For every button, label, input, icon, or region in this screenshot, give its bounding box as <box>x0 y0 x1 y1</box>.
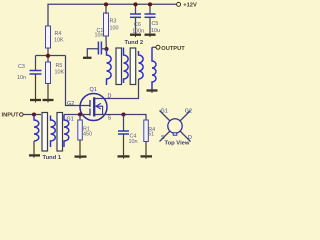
ground C5 <box>145 35 156 37</box>
gate bar G1 <box>89 109 91 116</box>
wire G1 line <box>64 114 90 116</box>
svg-text:R4: R4 <box>55 31 62 37</box>
transistor top view diagram <box>160 108 193 146</box>
ground Tund1 primary <box>29 155 40 157</box>
ground R1 <box>75 157 87 159</box>
svg-text:Tund 2: Tund 2 <box>125 40 144 46</box>
coil primary <box>34 115 39 142</box>
core bar <box>130 48 136 85</box>
gate bar G2 <box>89 100 91 107</box>
resistor R5 <box>46 62 65 84</box>
svg-text:OUTPUT: OUTPUT <box>161 46 185 52</box>
svg-text:G1: G1 <box>161 108 168 114</box>
svg-text:10n: 10n <box>17 75 26 81</box>
wire C1 left lead <box>87 49 98 57</box>
svg-text:INPUT: INPUT <box>2 113 20 119</box>
transistor Q1 dual-gate MOSFET <box>80 87 107 121</box>
wire bias node horizontal <box>36 55 66 57</box>
svg-text:G2: G2 <box>67 101 74 107</box>
capacitor C5 <box>145 4 161 34</box>
capacitor C6 <box>130 4 144 34</box>
wire C3 top lead <box>35 56 37 71</box>
wire drain to Tund2 <box>94 79 139 99</box>
node C5 rail <box>148 2 152 6</box>
coil secondary <box>139 51 144 79</box>
coil primary <box>107 49 112 85</box>
svg-text:Top View: Top View <box>165 140 190 146</box>
resistor R3 <box>104 13 119 36</box>
svg-text:S: S <box>108 115 112 121</box>
substrate arrow <box>95 106 102 114</box>
resistor R2 <box>144 120 155 155</box>
svg-text:10n: 10n <box>129 139 138 145</box>
wire output link to terminal <box>152 46 156 48</box>
core bar <box>116 48 122 85</box>
svg-text:R5: R5 <box>56 63 63 69</box>
svg-text:10u: 10u <box>151 28 160 34</box>
svg-text:10K: 10K <box>54 38 64 44</box>
ground C3 <box>30 100 41 103</box>
svg-text:Q1: Q1 <box>90 87 97 93</box>
node G1 R1 junction <box>78 112 82 116</box>
capacitor C4 <box>118 115 138 156</box>
svg-text:Tund 1: Tund 1 <box>43 155 62 161</box>
svg-text:C5: C5 <box>152 21 159 27</box>
wire source <box>94 115 146 121</box>
wire C3 bottom lead <box>35 75 37 100</box>
wire C1 right lead <box>101 48 106 50</box>
svg-text:G2: G2 <box>185 108 192 114</box>
ground C1 <box>83 57 92 59</box>
wire input <box>23 114 41 116</box>
ground output coil <box>147 91 158 94</box>
resistor R4 <box>46 26 64 48</box>
resistor R1 <box>78 115 92 156</box>
capacitor C3 <box>17 64 42 81</box>
core bar <box>42 113 48 152</box>
core bar <box>57 113 63 152</box>
svg-text:10K: 10K <box>55 70 65 76</box>
svg-text:100: 100 <box>110 25 119 31</box>
capacitor C1 <box>95 28 104 55</box>
svg-text:R3: R3 <box>110 19 117 25</box>
node R3 bottom junction <box>104 47 108 51</box>
svg-text:100n: 100n <box>132 28 144 34</box>
svg-text:10n: 10n <box>95 33 104 39</box>
node input junction <box>32 112 36 116</box>
ground R5 <box>43 100 54 103</box>
coil middle <box>124 48 129 84</box>
terminal OUTPUT <box>156 45 185 52</box>
wire R4 to bias node and R5 <box>47 48 49 62</box>
coil middle <box>51 116 56 148</box>
inductor output link coil <box>152 47 156 89</box>
channel bar <box>93 97 95 116</box>
terminal INPUT <box>2 113 24 119</box>
terminal +12V <box>177 2 197 8</box>
wire G2 riser from bias node <box>66 56 91 106</box>
node source C4 junction <box>121 112 125 116</box>
transformer Tund 2 <box>107 40 144 85</box>
svg-text:450: 450 <box>83 132 92 138</box>
wire R3 bottom lead <box>105 36 107 49</box>
ground C6 <box>130 35 141 37</box>
wire R5 bottom lead <box>47 84 49 100</box>
node R3 rail <box>104 2 108 6</box>
svg-text:+12V: +12V <box>183 3 197 9</box>
svg-text:51: 51 <box>148 131 154 137</box>
wire top +12V rail <box>48 4 177 26</box>
node C6 rail <box>133 2 137 6</box>
svg-text:C3: C3 <box>18 64 25 70</box>
coil secondary <box>64 115 69 148</box>
transformer Tund 1 <box>34 113 69 161</box>
ground R2 <box>141 156 153 158</box>
node bias junction <box>46 54 50 58</box>
wire R3 top lead <box>105 4 107 14</box>
svg-text:C6: C6 <box>134 22 141 28</box>
ground C4 <box>118 156 130 158</box>
